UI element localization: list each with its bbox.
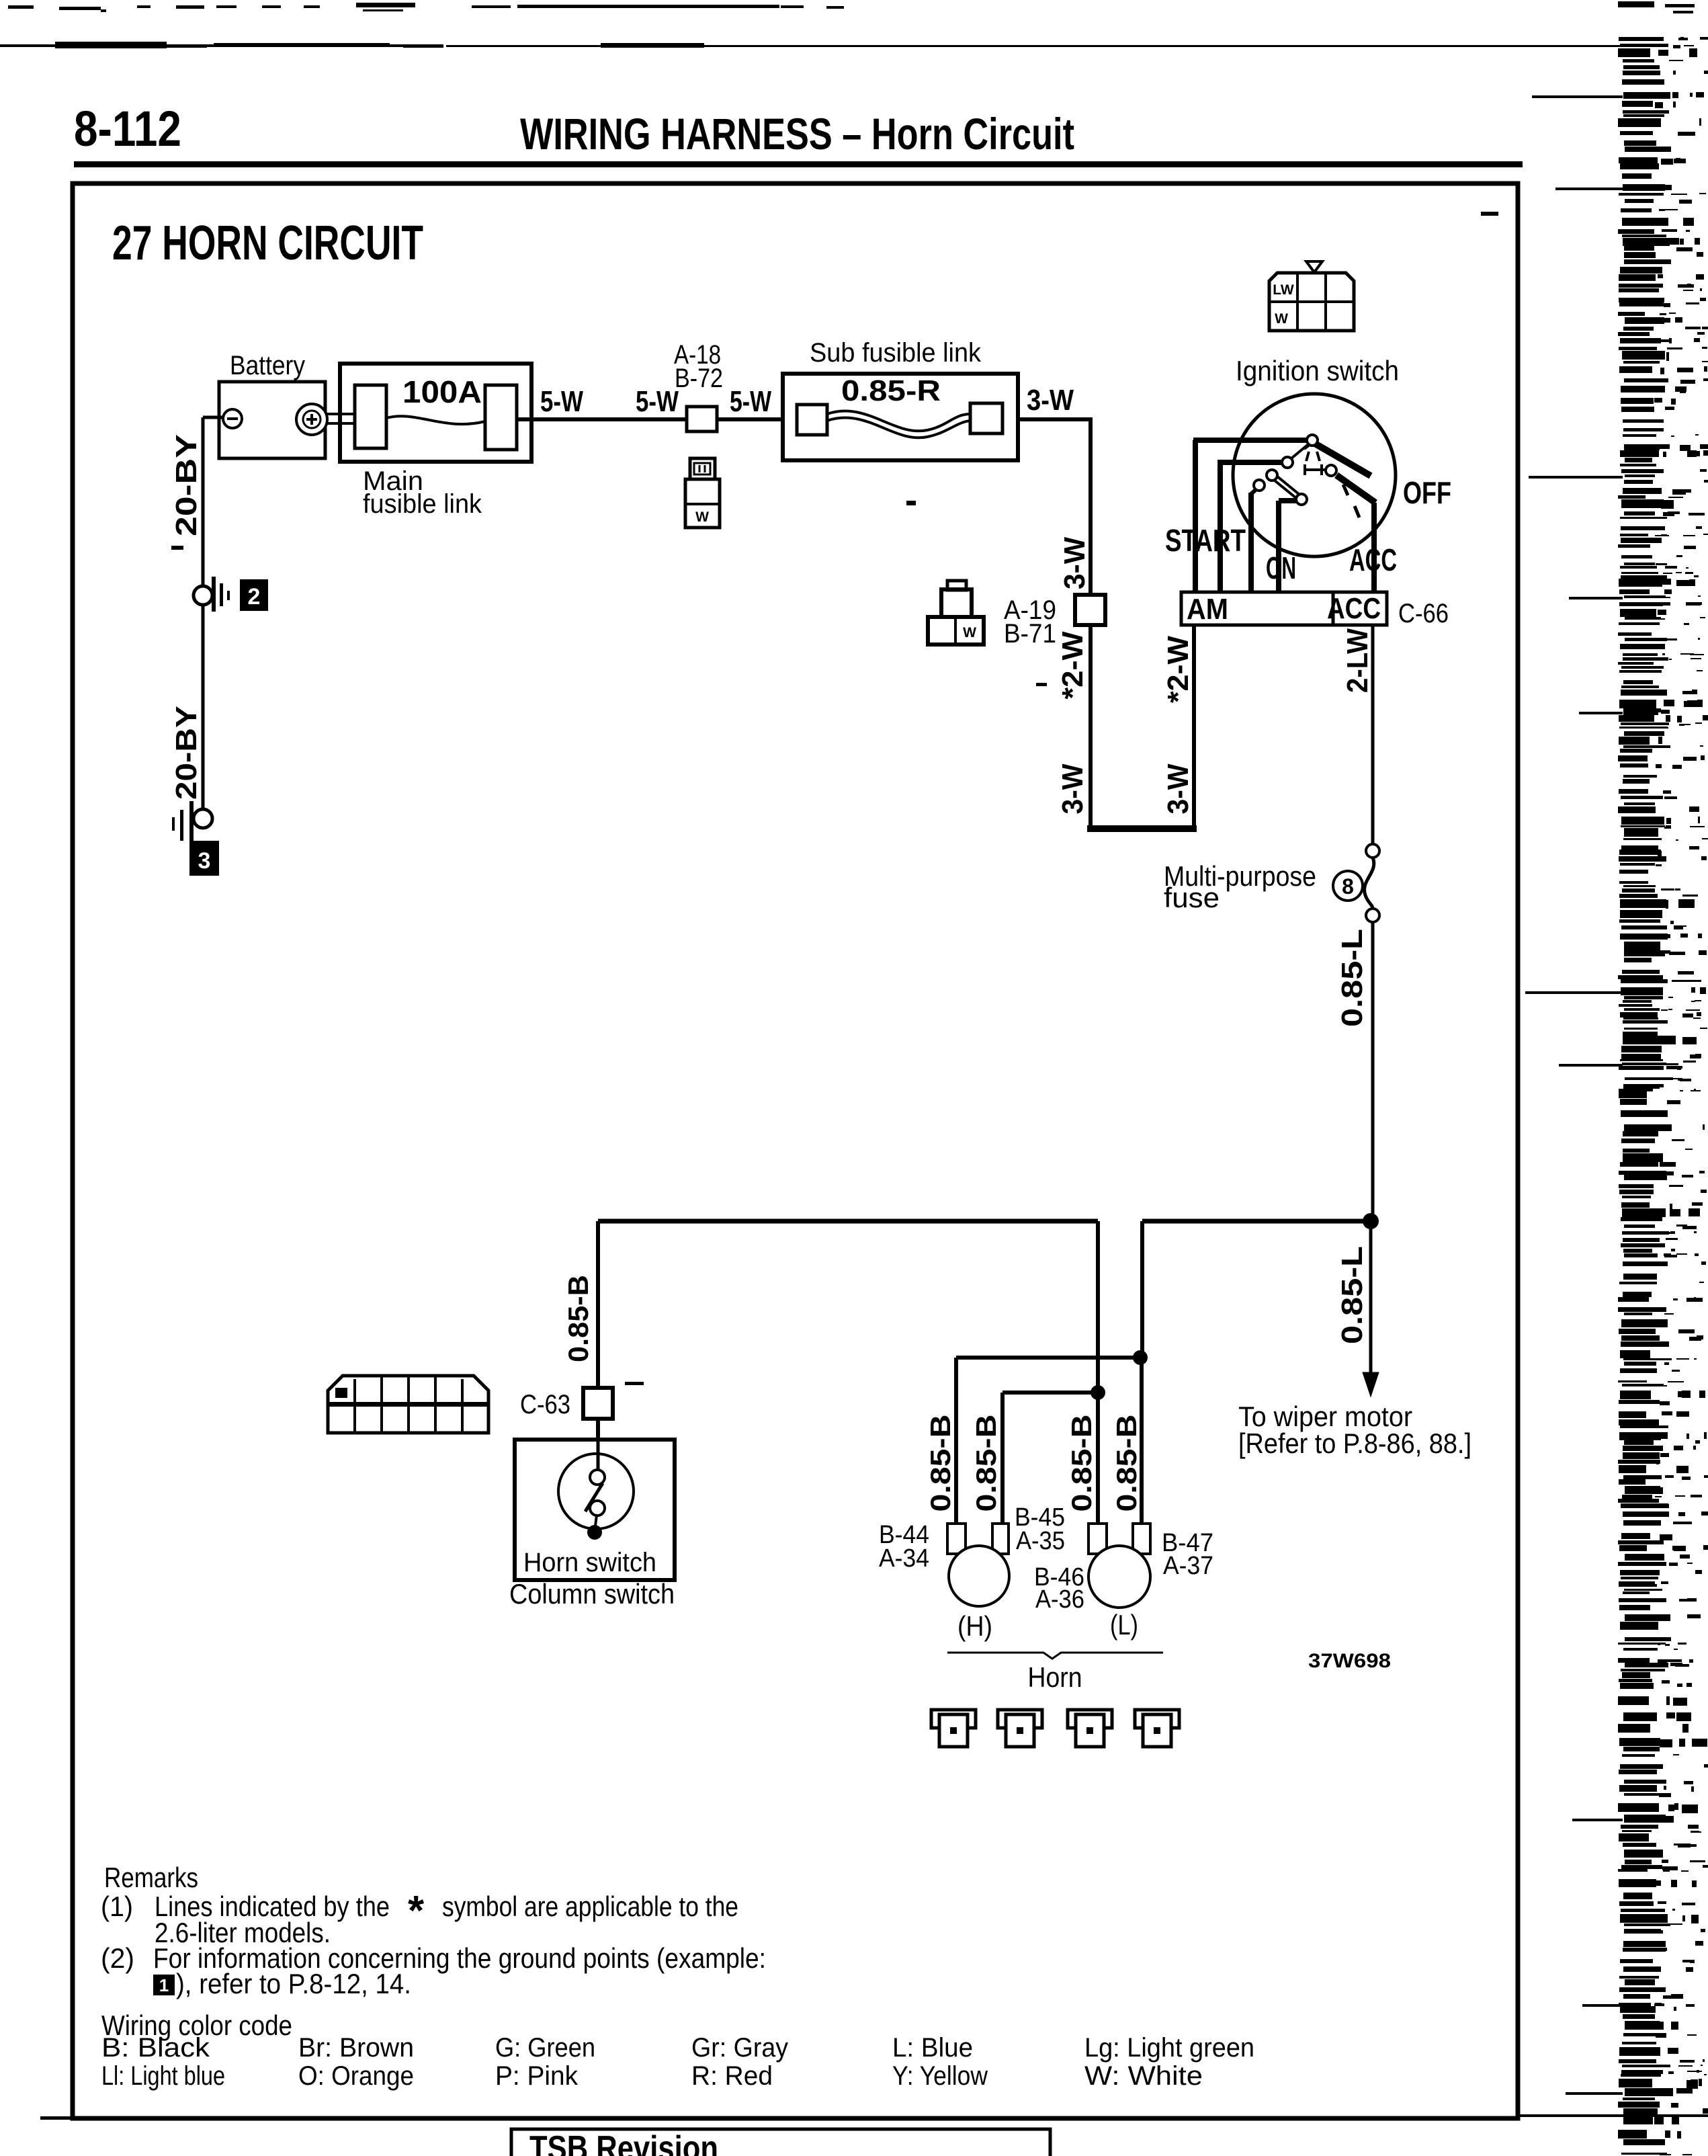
svg-text:0.85-B: 0.85-B [925, 1415, 956, 1512]
svg-text:(2): (2) [101, 1942, 134, 1974]
svg-text:W: White: W: White [1084, 2061, 1203, 2091]
svg-text:3-W: 3-W [1058, 537, 1091, 589]
svg-text:*2-W: *2-W [1162, 636, 1195, 703]
svg-text:0.85-B: 0.85-B [970, 1415, 1002, 1512]
svg-text:Horn switch: Horn switch [523, 1548, 656, 1577]
svg-text:Battery: Battery [230, 351, 305, 380]
svg-text:3-W: 3-W [1027, 384, 1074, 417]
svg-text:Br: Brown: Br: Brown [298, 2033, 414, 2063]
svg-text:Ll: Light blue: Ll: Light blue [101, 2061, 225, 2091]
svg-text:A-35: A-35 [1016, 1527, 1065, 1555]
svg-text:0.85-L: 0.85-L [1336, 929, 1369, 1027]
svg-text:R: Red: R: Red [691, 2061, 773, 2091]
svg-text:37W698: 37W698 [1308, 1650, 1391, 1672]
svg-text:B-71: B-71 [1004, 619, 1056, 649]
svg-text:P: Pink: P: Pink [495, 2061, 579, 2091]
svg-text:A-34: A-34 [879, 1544, 929, 1573]
svg-text:(H): (H) [957, 1610, 992, 1642]
svg-text:5-W: 5-W [730, 385, 771, 418]
svg-text:ON: ON [1266, 550, 1296, 585]
svg-text:[Refer to P.8-86, 88.]: [Refer to P.8-86, 88.] [1238, 1427, 1471, 1459]
svg-text:L: Blue: L: Blue [892, 2033, 973, 2063]
svg-text:20-BY: 20-BY [170, 434, 203, 536]
svg-text:Y: Yellow: Y: Yellow [892, 2061, 988, 2091]
svg-text:LW: LW [1273, 282, 1294, 298]
svg-text:Column switch: Column switch [509, 1578, 675, 1610]
svg-text:Gr: Gray: Gr: Gray [691, 2033, 788, 2063]
svg-text:Ignition switch: Ignition switch [1236, 355, 1399, 386]
svg-text:A-36: A-36 [1035, 1585, 1084, 1614]
svg-text:OFF: OFF [1403, 475, 1451, 510]
svg-text:fusible link: fusible link [363, 489, 482, 519]
svg-text:W: W [695, 509, 709, 525]
svg-text:TSB Revision: TSB Revision [529, 2129, 718, 2156]
svg-text:0.85-B: 0.85-B [1111, 1415, 1142, 1512]
svg-text:8-112: 8-112 [74, 101, 181, 157]
svg-text:2-LW: 2-LW [1341, 628, 1374, 693]
svg-text:Lg: Light green: Lg: Light green [1084, 2033, 1254, 2063]
svg-text:W: W [1275, 311, 1288, 327]
svg-text:fuse: fuse [1164, 882, 1220, 913]
svg-text:ACC: ACC [1327, 592, 1381, 625]
svg-text:AM: AM [1187, 593, 1228, 626]
svg-text:ACC: ACC [1349, 542, 1397, 577]
svg-text:*2-W: *2-W [1056, 631, 1089, 699]
svg-text:3: 3 [198, 848, 211, 874]
svg-text:(1): (1) [101, 1891, 133, 1922]
svg-text:symbol are applicable to the: symbol are applicable to the [442, 1891, 738, 1922]
svg-text:20-BY: 20-BY [170, 706, 203, 800]
svg-text:5-W: 5-W [636, 385, 679, 418]
svg-text:), refer to P.8-12, 14.: ), refer to P.8-12, 14. [176, 1968, 411, 1999]
svg-text:A-37: A-37 [1163, 1552, 1213, 1580]
svg-text:0.85-B: 0.85-B [1066, 1415, 1097, 1512]
svg-text:WIRING HARNESS – Horn Circuit: WIRING HARNESS – Horn Circuit [520, 109, 1074, 159]
svg-text:1: 1 [159, 1975, 169, 1995]
svg-text:0.85-L: 0.85-L [1336, 1246, 1369, 1344]
svg-text:C-63: C-63 [520, 1390, 570, 1419]
svg-text:G: Green: G: Green [495, 2033, 595, 2063]
svg-text:0.85-R: 0.85-R [841, 374, 941, 407]
svg-text:5-W: 5-W [540, 385, 583, 418]
svg-text:Sub fusible link: Sub fusible link [810, 338, 982, 368]
svg-text:8: 8 [1342, 874, 1354, 899]
svg-text:100A: 100A [402, 374, 482, 409]
svg-text:B-72: B-72 [675, 364, 723, 393]
svg-text:3-W: 3-W [1056, 763, 1089, 814]
svg-text:W: W [963, 625, 976, 640]
svg-text:*: * [408, 1888, 425, 1934]
svg-text:0.85-B: 0.85-B [562, 1275, 594, 1362]
svg-text:3-W: 3-W [1162, 763, 1195, 814]
svg-text:2: 2 [248, 584, 261, 610]
svg-text:C-66: C-66 [1398, 599, 1449, 628]
svg-text:B: Black: B: Black [101, 2033, 210, 2063]
svg-text:Remarks: Remarks [104, 1862, 198, 1893]
svg-text:START: START [1165, 523, 1246, 558]
svg-text:27 HORN CIRCUIT: 27 HORN CIRCUIT [112, 216, 423, 270]
svg-text:Horn: Horn [1028, 1661, 1082, 1693]
svg-text:(L): (L) [1110, 1609, 1138, 1641]
svg-text:O: Orange: O: Orange [298, 2061, 414, 2091]
